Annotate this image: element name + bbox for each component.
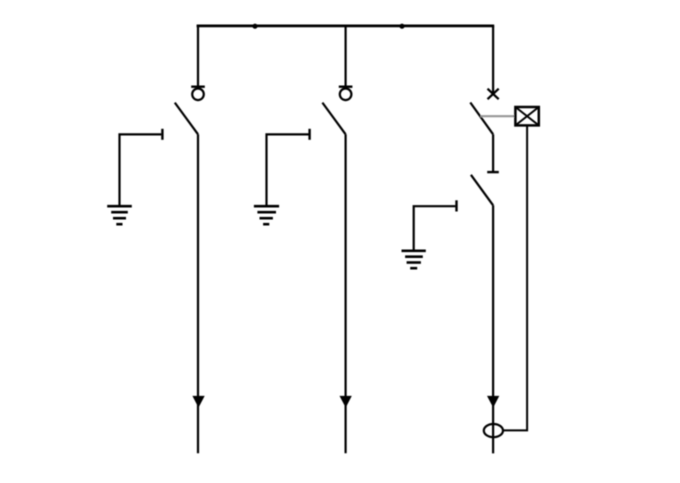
earthing switch ES3 contact tick <box>455 200 457 211</box>
earthing switch ES1 contact tick <box>161 129 163 140</box>
junction dot J2 <box>399 24 404 29</box>
wire: feeder 3 down-lead <box>492 205 494 453</box>
wire: earthing switch ES3 arm <box>414 206 456 250</box>
open-state circle of DS2 <box>340 89 352 101</box>
wire: bus to switch DS3 (branch 3) <box>492 26 494 94</box>
busbar B1 <box>197 24 495 27</box>
switch blade DS4 lower <box>471 175 493 206</box>
wire: between DS3 and DS4 <box>492 134 494 171</box>
arrowhead feeder 3 <box>487 396 499 408</box>
junction dot J1 <box>252 24 257 29</box>
wire: bus to switch DS1 (branch 1) <box>197 26 199 86</box>
fixed contact bar of DS4 <box>487 171 499 173</box>
earthing switch ES2 contact tick <box>308 129 310 140</box>
wire: earthing switch ES1 arm <box>120 134 162 205</box>
ground G2 <box>254 206 279 224</box>
instrument transformer CT1 <box>484 424 503 437</box>
wire: feeder 2 down-lead <box>345 134 347 453</box>
arrowhead feeder 1 <box>192 396 204 408</box>
motor/actuator box M1 <box>515 107 538 125</box>
closed-state X marker of DS3 <box>488 89 499 100</box>
wire: box M1 down to CT1 <box>503 125 527 430</box>
fixed contact bar of DS1 <box>191 85 205 87</box>
wire: bus to switch DS2 (branch 2) <box>345 26 347 86</box>
open-state circle of DS1 <box>192 89 204 101</box>
arrowhead feeder 2 <box>340 396 352 408</box>
switch blade DS2 <box>322 103 345 135</box>
wire: feeder 1 down-lead <box>197 134 199 453</box>
wire: earthing switch ES2 arm <box>267 134 309 205</box>
ground G1 <box>107 206 132 224</box>
ground G3 <box>402 251 426 268</box>
switch blade DS1 <box>175 103 198 135</box>
switch blade DS3 upper <box>470 103 493 135</box>
wire: link to motor box M1 (grey) <box>480 115 515 117</box>
fixed contact bar of DS2 <box>339 85 353 87</box>
